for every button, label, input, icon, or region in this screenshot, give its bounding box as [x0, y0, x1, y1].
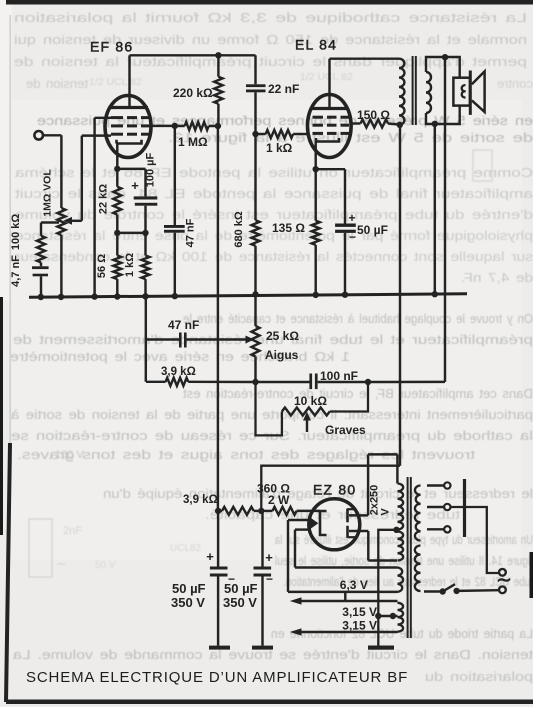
svg-text:Comme préamplificateur on util: Comme préamplificateur on utilise la pen… — [14, 165, 533, 180]
svg-text:EF 86: EF 86 — [90, 39, 133, 55]
svg-text:3,15 V: 3,15 V — [342, 605, 377, 619]
svg-text:22 nF: 22 nF — [268, 82, 299, 96]
svg-text:1 kΩ branchée en série avec le: 1 kΩ branchée en série avec le potentiom… — [10, 349, 350, 364]
svg-text:+: + — [348, 211, 355, 225]
svg-text:350 V: 350 V — [223, 595, 257, 610]
svg-text:150 Ω: 150 Ω — [357, 108, 390, 122]
svg-text:350 V: 350 V — [171, 595, 205, 610]
svg-text:10 kΩ: 10 kΩ — [294, 394, 327, 408]
svg-text:V: V — [380, 508, 392, 516]
svg-text:amplificateur final de puissan: amplificateur final de puissance la pent… — [15, 186, 533, 201]
svg-text:de 4,7 nF.: de 4,7 nF. — [461, 270, 533, 285]
svg-text:EZ 80: EZ 80 — [313, 482, 356, 498]
svg-text:3,15 V: 3,15 V — [342, 619, 377, 633]
svg-text:3,9 kΩ: 3,9 kΩ — [161, 366, 196, 378]
svg-text:50 µF: 50 µF — [172, 581, 206, 596]
svg-text:sur laquelle sont connectés la: sur laquelle sont connectés la résistanc… — [14, 249, 533, 264]
svg-text:−: − — [349, 230, 356, 244]
svg-text:220 kΩ: 220 kΩ — [173, 86, 213, 100]
svg-text:1/2 UCL 82: 1/2 UCL 82 — [89, 76, 142, 88]
svg-text:tension de: tension de — [26, 76, 88, 91]
svg-text:47 nF: 47 nF — [168, 318, 199, 332]
svg-text:Aigus: Aigus — [265, 348, 299, 362]
svg-text:∼: ∼ — [56, 556, 67, 571]
svg-text:2nF: 2nF — [63, 525, 82, 537]
svg-text:50 µF: 50 µF — [357, 223, 388, 237]
svg-text:160 V: 160 V — [55, 449, 84, 461]
svg-text:4,7 nF: 4,7 nF — [10, 255, 22, 287]
svg-text:EL 84: EL 84 — [295, 37, 337, 53]
svg-text:680 kΩ: 680 kΩ — [233, 211, 245, 248]
svg-text:+: + — [265, 550, 273, 565]
svg-text:1 MΩ: 1 MΩ — [178, 135, 208, 149]
svg-text:Graves: Graves — [325, 423, 366, 437]
svg-text:6,3 V: 6,3 V — [340, 578, 368, 592]
svg-text:particulièrement intéressant:: particulièrement intéressant: il comport… — [10, 407, 533, 422]
svg-text:trouvent les réglages des tons: trouvent les réglages des tons aigus et … — [17, 447, 475, 462]
svg-text:1MΩ VOL: 1MΩ VOL — [42, 169, 54, 217]
svg-text:47 nF: 47 nF — [185, 218, 197, 247]
svg-text:polarisation du: polarisation du — [425, 669, 533, 684]
svg-text:50 µF: 50 µF — [224, 581, 258, 596]
svg-text:1 kΩ: 1 kΩ — [266, 141, 293, 155]
svg-text:135 Ω: 135 Ω — [272, 221, 305, 235]
svg-text:1 kΩ: 1 kΩ — [124, 253, 136, 277]
svg-text:−: − — [266, 572, 273, 586]
svg-text:56 Ω: 56 Ω — [96, 254, 108, 278]
svg-text:100 µF: 100 µF — [145, 152, 157, 187]
svg-text:contre: contre — [497, 76, 533, 91]
svg-text:2 W: 2 W — [268, 493, 290, 507]
svg-text:Dans cet amplificateur BF, le: Dans cet amplificateur BF, le circuit de… — [183, 386, 533, 401]
svg-text:1/2 UCL 82: 1/2 UCL 82 — [300, 71, 353, 83]
svg-text:100 kΩ: 100 kΩ — [10, 214, 22, 251]
svg-text:∼: ∼ — [496, 570, 512, 591]
svg-text:22 kΩ: 22 kΩ — [98, 184, 110, 214]
svg-text:On y trouve le couplage habitu: On y trouve le couplage habituel à résis… — [183, 311, 533, 326]
svg-text:100 nF: 100 nF — [320, 369, 358, 383]
svg-text:+: + — [206, 549, 214, 564]
svg-text:UCL82: UCL82 — [170, 543, 202, 554]
svg-text:d'entrée du tube préamplificat: d'entrée du tube préamplificateur est in… — [15, 207, 533, 222]
svg-text:La résistance cathodique de 3,: La résistance cathodique de 3,3 kΩ fourn… — [14, 10, 527, 25]
svg-text:+: + — [131, 178, 139, 193]
svg-text:3,9 kΩ: 3,9 kΩ — [183, 494, 218, 506]
svg-text:25 kΩ: 25 kΩ — [266, 329, 299, 343]
svg-text:50 V: 50 V — [95, 560, 116, 571]
svg-text:SCHEMA ELECTRIQUE D’UN AMPLIFI: SCHEMA ELECTRIQUE D’UN AMPLIFICATEUR BF — [26, 669, 408, 686]
